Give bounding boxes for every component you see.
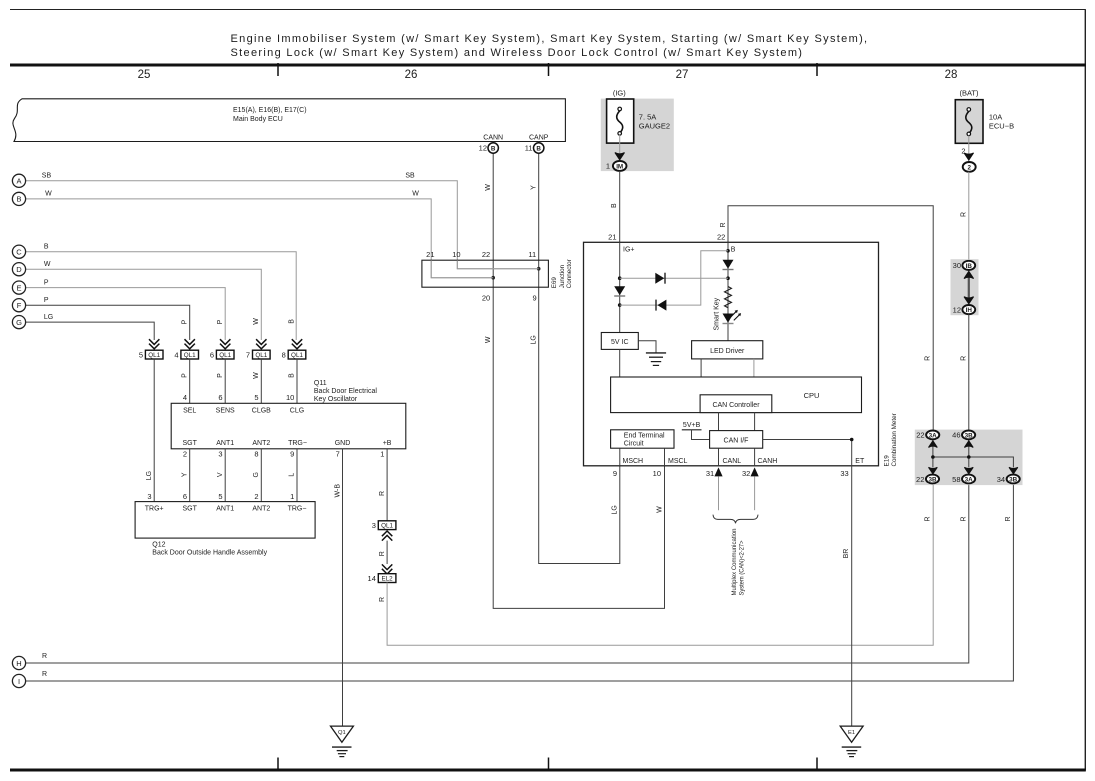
bottom border line [10,769,1086,772]
svg-text:Engine Immobiliser System (w/: Engine Immobiliser System (w/ Smart Key … [231,33,869,45]
svg-text:8: 8 [282,350,286,359]
svg-text:4: 4 [183,393,187,402]
svg-text:R: R [42,653,47,660]
ruler tick 1 [277,63,279,76]
svg-text:W: W [485,184,492,191]
thick link wire [968,272,970,303]
svg-text:5: 5 [254,393,258,402]
svg-text:W: W [656,506,663,513]
svg-text:R: R [720,222,727,227]
svg-text:BR: BR [843,549,850,559]
svg-text:W: W [412,191,419,198]
svg-text:Circuit: Circuit [624,440,644,447]
svg-text:IB: IB [966,263,973,270]
section ruler [10,64,1086,67]
connector circle A [12,174,25,187]
connector circle E [12,281,25,294]
connector 8 QL1 [288,350,306,359]
svg-text:LG: LG [146,471,153,480]
resistor on B line [725,287,732,308]
svg-text:R: R [379,491,386,496]
svg-text:C: C [16,248,22,257]
connector circle D [12,263,25,276]
connector 4 QL1 [181,350,199,359]
svg-text:Y: Y [530,185,537,190]
connector 5 QL1 [145,350,163,359]
wire R from meter pin 22 up and right [728,206,933,431]
svg-text:Multiplex Communication: Multiplex Communication [731,528,738,595]
svg-text:5: 5 [139,350,143,359]
svg-text:CANN: CANN [483,134,503,141]
BR wire ET to E1 ground [851,466,853,726]
svg-text:Back Door Electrical: Back Door Electrical [314,388,377,395]
diode D1 on IG+ line (down) [614,286,625,295]
oval connector 2 [963,162,976,172]
svg-text:L: L [289,473,296,477]
svg-text:10A: 10A [989,113,1002,122]
ruler tick 3 [816,63,818,76]
connector circle B [12,192,25,205]
svg-text:20: 20 [482,294,490,303]
svg-text:22: 22 [482,250,490,259]
solid chevrons down toward bottom row [929,467,938,474]
svg-text:2: 2 [254,492,258,501]
svg-text:R: R [1005,516,1012,521]
wire A SB [26,181,539,269]
svg-text:TRG+: TRG+ [145,506,164,513]
QL1 connector row: double chevrons down [149,339,302,349]
svg-text:Back Door Outside Handle Assem: Back Door Outside Handle Assembly [152,550,267,557]
CANH arrow and stub [751,467,759,476]
CAN I/F box [710,431,763,449]
horizontal link with diode D3 (right) [620,277,728,279]
node dot [618,276,622,280]
horizontal link with diode D4 (left) [620,251,728,305]
svg-text:P: P [217,373,224,378]
svg-text:W: W [45,191,52,198]
svg-text:R: R [960,516,967,521]
svg-text:SB: SB [42,173,52,180]
Q12 Back Door Outside Handle Assembly box [135,502,315,538]
svg-text:B: B [289,319,296,324]
connector circle C [12,245,25,258]
wire fuse to IM [619,135,621,161]
svg-text:25: 25 [138,69,151,81]
svg-text:B: B [289,373,296,378]
svg-text:(IG): (IG) [613,89,626,98]
svg-text:MSCL: MSCL [668,458,688,465]
svg-text:3B: 3B [1009,476,1018,483]
svg-text:3B: 3B [965,432,974,439]
E69 internal jumper SB [457,260,538,269]
svg-text:I: I [18,677,20,686]
connector 6 QL1 [216,350,234,359]
svg-text:ECU−B: ECU−B [989,121,1014,130]
wire R from EL2 to right connector 3B [387,484,933,646]
wire CANN W from pin 12B down through E69 to MSCL [493,142,664,609]
svg-text:9: 9 [533,294,537,303]
svg-text:1: 1 [380,449,384,458]
wires through gray box [933,439,969,468]
svg-text:32: 32 [742,469,750,478]
svg-text:Q1: Q1 [338,730,346,736]
chevrons up toward QL1 [382,531,392,541]
svg-text:G: G [16,318,22,327]
svg-text:22: 22 [916,431,924,440]
IG+ internal wire [619,242,621,332]
5V IC box [601,333,638,350]
connector 14 EL2 [378,574,396,583]
svg-text:6: 6 [210,350,214,359]
solid chevrons up toward 3A/3B [929,441,938,448]
bottom tick 1 [277,758,279,770]
svg-text:2: 2 [183,449,187,458]
svg-text:QL1: QL1 [184,352,196,359]
svg-text:B: B [536,145,541,152]
svg-text:SEL: SEL [183,407,196,414]
svg-text:Main Body ECU: Main Body ECU [233,116,283,123]
solid chevron up toward IB [964,271,974,278]
wire E P [26,288,226,340]
svg-text:TRG−: TRG− [288,440,307,447]
junction dot SB-CANP [537,267,541,271]
Main Body ECU box E15/E16/E17 [13,99,565,142]
pin 11 B connector circle [534,143,544,153]
wire R from oval 2 down to IB [968,172,970,261]
svg-text:46: 46 [952,431,960,440]
svg-text:11: 11 [525,144,533,153]
controller to CAN I/F wires [719,413,755,431]
svg-text:V: V [217,472,224,477]
wire F P [26,305,190,340]
E69 internal jumper W [431,260,493,278]
oval connector 22 3B [926,475,939,484]
svg-text:Junction: Junction [559,264,566,288]
svg-text:27: 27 [676,69,689,81]
svg-text:30: 30 [953,261,961,270]
svg-text:B: B [611,203,618,208]
Q11 Back Door Electrical Key Oscillator box [171,403,406,449]
svg-text:W-B: W-B [334,484,341,498]
wire 5V IC to CPU [619,349,621,377]
svg-text:5V+B: 5V+B [683,422,701,429]
CANL arrow and stub [714,467,722,476]
svg-text:R: R [379,551,386,556]
svg-text:P: P [217,319,224,324]
svg-text:LG: LG [530,335,537,344]
svg-text:Key Oscillator: Key Oscillator [314,396,358,403]
svg-text:7: 7 [246,350,250,359]
svg-text:W: W [485,336,492,343]
svg-text:CAN I/F: CAN I/F [724,438,749,445]
wire fuse to oval 2 [968,136,970,163]
svg-text:3A: 3A [929,432,938,439]
svg-text:33: 33 [840,469,848,478]
junction dot W-CANN [491,276,495,280]
svg-text:3: 3 [147,492,151,501]
wire C B [26,252,297,340]
svg-text:28: 28 [945,69,958,81]
svg-text:1: 1 [290,492,294,501]
node dot [618,303,622,307]
svg-text:P: P [44,297,49,304]
svg-text:A: A [16,177,21,186]
meter bottom pin wires [620,448,755,466]
svg-text:34: 34 [997,475,1005,484]
wire CANP Y/LG from pin 11B down through E69 to MSCH [539,142,620,564]
svg-text:10: 10 [286,393,294,402]
top border line [10,9,1086,11]
svg-text:SGT: SGT [183,506,198,513]
LED driver legs to CPU [700,359,702,377]
svg-text:IM: IM [616,163,623,170]
svg-text:IG+: IG+ [623,247,634,254]
CPU box [611,377,862,413]
solid chevron down toward IH [964,297,974,304]
svg-text:7. 5A: 7. 5A [639,113,657,122]
svg-text:Connector: Connector [566,259,573,288]
svg-text:TRG−: TRG− [288,506,307,513]
svg-text:EL2: EL2 [381,575,393,582]
svg-text:IH: IH [966,307,973,314]
+B wire R down to QL1(3) [386,449,388,521]
svg-text:22: 22 [717,232,725,241]
svg-text:QL1: QL1 [148,352,160,359]
svg-text:Q12: Q12 [152,542,165,549]
svg-text:4: 4 [174,350,178,359]
wire H R [26,484,969,664]
svg-text:3: 3 [218,449,222,458]
IB/IH gray box [951,259,979,315]
svg-text:CLGB: CLGB [252,407,271,414]
svg-text:21: 21 [608,232,616,241]
solid chevron down to oval 2 [964,153,974,160]
wire I R [26,484,1014,682]
svg-text:E15(A), E16(B), E17(C): E15(A), E16(B), E17(C) [233,107,307,114]
svg-text:R: R [924,356,931,361]
ground Q1 [331,726,354,742]
LED smart key indicator [723,314,734,323]
wire B W [26,199,494,278]
svg-text:P: P [181,373,188,378]
svg-text:E: E [16,283,21,292]
svg-text:ANT1: ANT1 [216,506,234,513]
svg-text:9: 9 [613,469,617,478]
node dot [726,276,730,280]
svg-text:SGT: SGT [183,440,198,447]
svg-text:12: 12 [479,144,487,153]
wire B from IM to meter pin 21 [619,171,621,242]
svg-text:+B: +B [383,440,392,447]
svg-text:CPU: CPU [804,391,820,400]
svg-text:LG: LG [44,314,53,321]
connector circle G [12,316,25,329]
svg-text:ANT1: ANT1 [216,440,234,447]
svg-text:GAUGE2: GAUGE2 [639,121,670,130]
svg-text:R: R [924,516,931,521]
svg-text:CANP: CANP [529,134,549,141]
svg-text:G: G [253,472,260,477]
oval connector 58 3A [962,475,975,484]
svg-text:LED Driver: LED Driver [710,348,745,355]
svg-text:ANT2: ANT2 [252,440,270,447]
svg-text:8: 8 [254,449,258,458]
ruler tick 2 [548,63,550,76]
svg-text:Steering Lock (w/ Smart Key Sy: Steering Lock (w/ Smart Key System) and … [231,47,804,59]
svg-text:R: R [960,212,967,217]
svg-text:B: B [44,244,49,251]
svg-text:R: R [960,356,967,361]
svg-text:QL1: QL1 [381,523,393,530]
svg-text:9: 9 [290,449,294,458]
svg-text:(BAT): (BAT) [959,89,979,98]
svg-text:10: 10 [653,469,661,478]
svg-text:W: W [253,318,260,325]
svg-text:LG: LG [612,505,619,514]
svg-text:CAN Controller: CAN Controller [712,402,760,409]
node dot on B at top [726,249,730,253]
svg-text:F: F [17,301,22,310]
svg-text:5V IC: 5V IC [611,339,629,346]
bottom tick 2 [548,758,550,770]
svg-text:58: 58 [952,475,960,484]
chevrons down toward EL2 [382,564,392,574]
svg-text:21: 21 [426,250,434,259]
pin 12 B connector circle [488,143,498,153]
oval connector 46 3B [962,431,975,440]
svg-text:11: 11 [528,250,536,259]
svg-text:W: W [44,261,51,268]
svg-text:SB: SB [405,173,415,180]
svg-text:D: D [16,265,22,274]
svg-text:Combination Meter: Combination Meter [891,413,898,466]
connector 7 QL1 [253,350,271,359]
connector circle I [12,674,25,687]
svg-text:5: 5 [218,492,222,501]
svg-text:12: 12 [953,305,961,314]
svg-text:P: P [181,319,188,324]
svg-text:7: 7 [336,449,340,458]
right connector gray box [915,430,1023,486]
ET wire from CAN I/F [763,440,852,466]
GND wire W-B down to Q1 [342,449,344,726]
connector circle F [12,299,25,312]
svg-text:MSCH: MSCH [623,458,644,465]
svg-text:CANL: CANL [723,458,742,465]
wire D W [26,269,262,340]
svg-text:3: 3 [372,521,376,530]
wires Q11 to Q12 [189,449,191,502]
svg-text:R: R [379,597,386,602]
End Terminal Circuit box [611,430,674,448]
solid chevron down to IM [615,153,625,160]
svg-text:ANT2: ANT2 [252,506,270,513]
svg-text:14: 14 [368,574,376,583]
svg-text:10: 10 [452,250,460,259]
E19 Combination Meter box [584,242,879,465]
svg-text:6: 6 [218,393,222,402]
connector 3 QL1 [378,521,396,530]
B internal wire [727,242,729,340]
svg-text:31: 31 [706,469,714,478]
svg-text:H: H [16,659,21,668]
svg-text:System (CAN)<2-27>: System (CAN)<2-27> [738,540,745,595]
bottom tick 3 [816,758,818,770]
svg-text:26: 26 [405,69,418,81]
svg-text:E1: E1 [848,730,855,736]
oval connector 30 IB [962,261,975,270]
oval connector 1 IM [613,161,627,171]
svg-text:Y: Y [181,472,188,477]
IG fuse gray panel [601,99,674,172]
svg-text:GND: GND [335,440,351,447]
svg-text:ET: ET [855,458,865,465]
ground E1 [840,726,863,742]
svg-text:QL1: QL1 [291,352,303,359]
curly brace [713,515,758,524]
svg-text:6: 6 [183,492,187,501]
connector circle H [12,656,25,669]
svg-text:B: B [491,145,496,152]
svg-text:QL1: QL1 [219,352,231,359]
svg-text:R: R [42,671,47,678]
svg-text:3B: 3B [928,476,937,483]
svg-text:E19: E19 [884,455,891,467]
CAN Controller box [700,395,772,413]
internal ground from 5V IC [638,341,656,353]
svg-text:CLG: CLG [290,407,304,414]
svg-text:CANH: CANH [758,458,778,465]
right border line [1084,10,1086,771]
svg-text:E69: E69 [551,277,558,289]
LED Driver box [692,341,763,359]
wires QL1 to Q11 [153,359,155,502]
svg-text:W: W [253,372,260,379]
svg-text:Q11: Q11 [314,380,327,387]
oval connector 34 3B [1007,475,1020,484]
svg-text:B: B [16,195,21,204]
svg-text:End Terminal: End Terminal [624,433,665,440]
oval connector 12 IH [962,305,975,314]
svg-text:3A: 3A [965,476,974,483]
svg-text:2: 2 [967,164,971,171]
svg-text:22: 22 [916,475,924,484]
fuse 7.5A GAUGE2 [607,99,634,143]
svg-text:1: 1 [606,162,610,171]
wire R from IH down to 3B [968,314,970,431]
svg-text:QL1: QL1 [255,352,267,359]
svg-text:P: P [44,279,49,286]
wire G LG [26,322,155,340]
oval connector 22 3A [926,431,939,440]
diode D2 on B line (down) [723,260,734,269]
wire between QL1(3) and EL2(14) [386,541,388,564]
E69 junction connector box [422,260,549,287]
svg-text:Smart Key: Smart Key [714,297,721,330]
svg-text:B: B [731,247,736,254]
svg-text:SENS: SENS [216,407,235,414]
